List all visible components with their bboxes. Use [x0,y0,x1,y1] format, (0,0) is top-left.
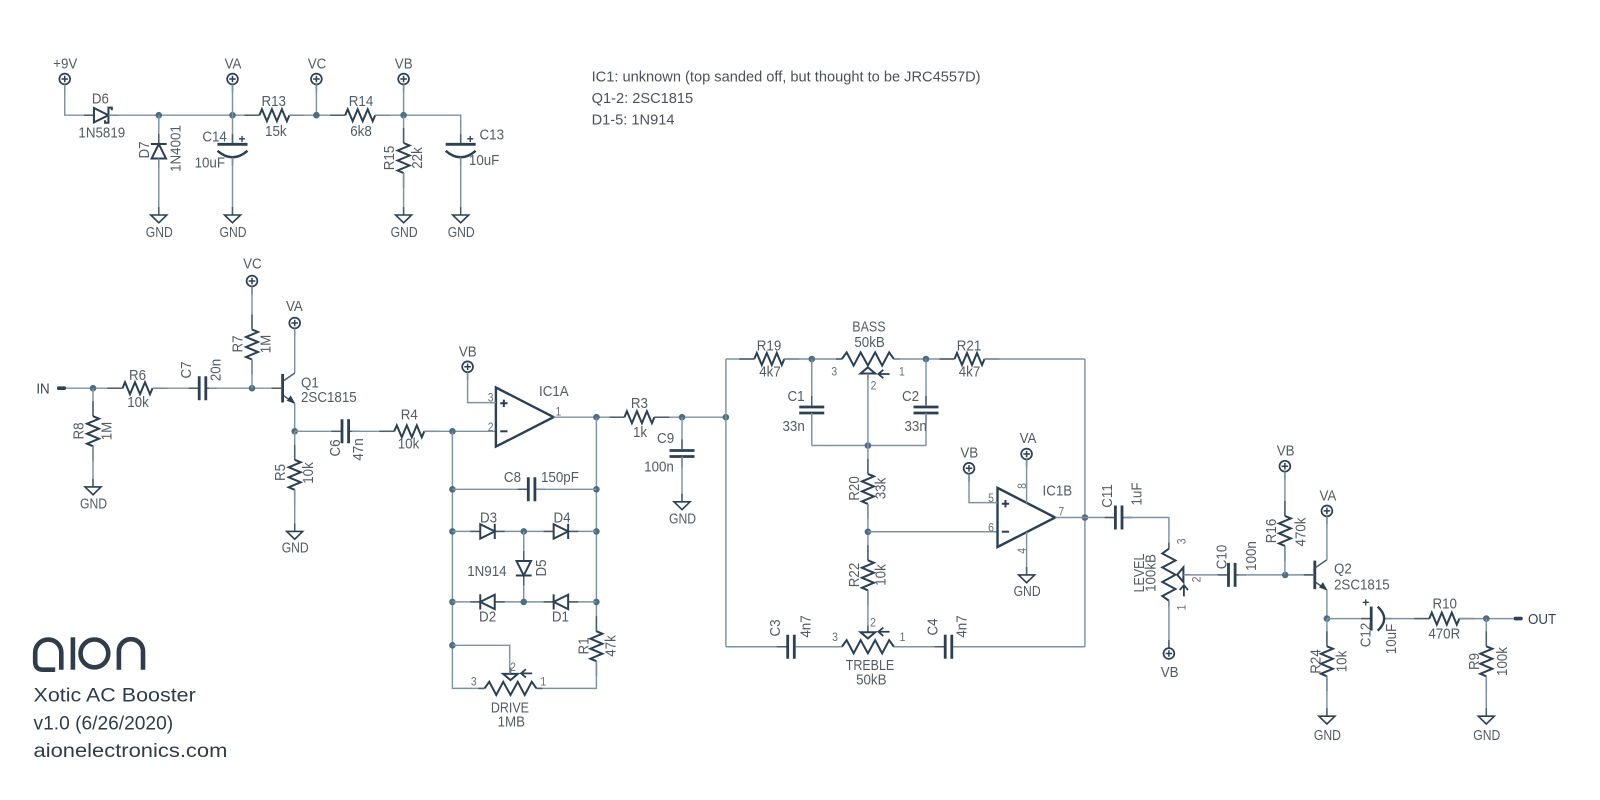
svg-text:C9: C9 [657,430,674,447]
svg-text:IN: IN [36,381,49,398]
svg-text:R5: R5 [272,464,289,481]
svg-text:2: 2 [871,380,877,393]
svg-text:100n: 100n [644,459,674,476]
svg-text:20n: 20n [208,359,225,381]
svg-text:R7: R7 [230,335,247,352]
svg-text:C12: C12 [1358,623,1375,648]
svg-text:OUT: OUT [1528,611,1556,628]
svg-text:C14: C14 [202,129,227,146]
svg-text:D6: D6 [92,91,109,108]
svg-text:GND: GND [669,510,696,527]
svg-text:D7: D7 [136,141,153,158]
svg-text:6k8: 6k8 [350,123,372,140]
svg-text:R9: R9 [1466,653,1483,670]
svg-text:VB: VB [395,56,413,73]
svg-text:1N914: 1N914 [467,563,506,580]
svg-text:aionelectronics.com: aionelectronics.com [34,740,228,761]
svg-text:Q2: Q2 [1334,561,1352,578]
svg-text:R13: R13 [261,93,286,110]
svg-text:10k: 10k [127,394,149,411]
svg-text:2: 2 [1191,577,1204,583]
svg-text:VA: VA [1319,488,1336,505]
svg-text:R21: R21 [957,338,982,355]
svg-text:+: + [467,132,474,146]
svg-text:1M: 1M [258,335,275,354]
svg-text:1N5819: 1N5819 [78,125,125,142]
svg-text:GND: GND [146,224,173,241]
svg-text:10k: 10k [873,563,890,585]
svg-text:3: 3 [831,366,837,379]
svg-text:C11: C11 [1099,484,1116,508]
svg-text:v1.0 (6/26/2020): v1.0 (6/26/2020) [34,714,174,735]
svg-text:R24: R24 [1308,649,1325,674]
svg-text:D5: D5 [533,559,550,576]
svg-text:10uF: 10uF [195,155,226,172]
svg-text:+: + [238,132,245,146]
svg-text:+: + [1362,596,1369,610]
svg-text:D4: D4 [553,510,570,527]
svg-text:VA: VA [1020,430,1037,447]
svg-text:GND: GND [219,224,246,241]
svg-text:1M: 1M [99,422,116,441]
svg-text:47n: 47n [350,438,367,460]
svg-text:100k: 100k [1494,646,1511,676]
svg-text:2: 2 [870,617,876,630]
svg-text:1MB: 1MB [498,714,525,731]
svg-text:R20: R20 [846,476,863,501]
svg-text:10uF: 10uF [469,152,500,169]
svg-text:VA: VA [286,298,303,315]
svg-text:R19: R19 [757,338,782,355]
svg-text:D3: D3 [480,510,497,527]
svg-text:4n7: 4n7 [954,615,971,637]
svg-text:D1-5: 1N914: D1-5: 1N914 [592,112,675,128]
svg-text:VC: VC [308,56,327,73]
svg-text:2: 2 [510,661,516,674]
svg-text:100kB: 100kB [1143,554,1160,592]
svg-text:IC1B: IC1B [1043,483,1073,500]
svg-text:2SC1815: 2SC1815 [301,389,357,406]
svg-text:1: 1 [540,676,546,689]
svg-text:470R: 470R [1428,626,1460,643]
svg-text:C6: C6 [327,439,344,456]
svg-text:470k: 470k [1293,517,1310,547]
svg-text:10k: 10k [300,461,317,483]
svg-text:R6: R6 [129,367,146,384]
svg-text:1uF: 1uF [1129,482,1146,505]
svg-text:1k: 1k [633,424,648,441]
svg-text:R8: R8 [71,422,88,439]
svg-text:GND: GND [448,224,475,241]
svg-text:GND: GND [391,224,418,241]
svg-text:VA: VA [225,56,242,73]
svg-text:R15: R15 [381,146,398,171]
svg-text:1: 1 [900,631,906,644]
svg-text:10k: 10k [1334,650,1351,672]
svg-text:3: 3 [832,631,838,644]
svg-text:C2: C2 [902,388,919,405]
svg-text:C4: C4 [925,618,942,635]
svg-text:1: 1 [899,366,905,379]
svg-text:GND: GND [1473,727,1500,744]
svg-text:D1: D1 [552,609,569,626]
svg-text:R1: R1 [576,637,593,654]
svg-text:33k: 33k [873,477,890,499]
svg-text:R4: R4 [401,407,418,424]
svg-text:VC: VC [243,256,262,273]
svg-text:D2: D2 [479,609,496,626]
svg-text:6: 6 [988,522,994,535]
svg-text:33n: 33n [782,418,804,435]
svg-text:VB: VB [1161,664,1179,681]
svg-text:50kB: 50kB [854,334,884,351]
svg-text:GND: GND [80,495,107,512]
svg-text:GND: GND [1014,583,1041,600]
svg-text:47k: 47k [603,634,620,656]
svg-text:R16: R16 [1263,519,1280,544]
svg-text:1: 1 [1176,605,1189,611]
svg-text:IC1: unknown (top sanded off,: IC1: unknown (top sanded off, but though… [592,69,981,85]
svg-text:50kB: 50kB [856,672,886,689]
svg-text:4k7: 4k7 [759,364,781,381]
svg-text:C7: C7 [178,361,195,378]
svg-text:VB: VB [459,344,477,361]
svg-text:3: 3 [1176,538,1189,544]
svg-text:22k: 22k [409,146,426,168]
svg-text:7: 7 [1058,506,1064,519]
svg-text:100n: 100n [1243,541,1260,571]
svg-text:VB: VB [1277,443,1295,460]
svg-text:+9V: +9V [53,56,78,73]
svg-text:3: 3 [471,676,477,689]
svg-text:VB: VB [960,445,978,462]
svg-text:10uF: 10uF [1383,624,1400,655]
svg-text:C13: C13 [480,127,505,144]
svg-text:4k7: 4k7 [959,364,981,381]
svg-text:4n7: 4n7 [798,615,815,637]
svg-text:R3: R3 [631,395,648,412]
svg-text:IC1A: IC1A [539,383,569,400]
svg-text:R14: R14 [349,93,374,110]
svg-text:15k: 15k [265,123,287,140]
svg-text:1N4001: 1N4001 [168,125,185,172]
svg-text:C1: C1 [787,388,804,405]
svg-text:10k: 10k [398,436,420,453]
svg-text:2SC1815: 2SC1815 [1334,577,1390,594]
svg-text:R10: R10 [1432,596,1457,613]
svg-text:2: 2 [488,421,494,434]
svg-text:Xotic AC Booster: Xotic AC Booster [34,686,197,707]
svg-text:GND: GND [282,539,309,556]
svg-text:Q1-2: 2SC1815: Q1-2: 2SC1815 [592,91,694,107]
svg-text:BASS: BASS [852,317,885,334]
svg-text:C8: C8 [504,469,521,486]
svg-text:GND: GND [1314,727,1341,744]
svg-text:150pF: 150pF [541,469,579,486]
svg-text:C10: C10 [1214,545,1231,570]
svg-text:C3: C3 [767,619,784,636]
svg-text:R22: R22 [846,563,863,588]
svg-text:33n: 33n [904,418,926,435]
